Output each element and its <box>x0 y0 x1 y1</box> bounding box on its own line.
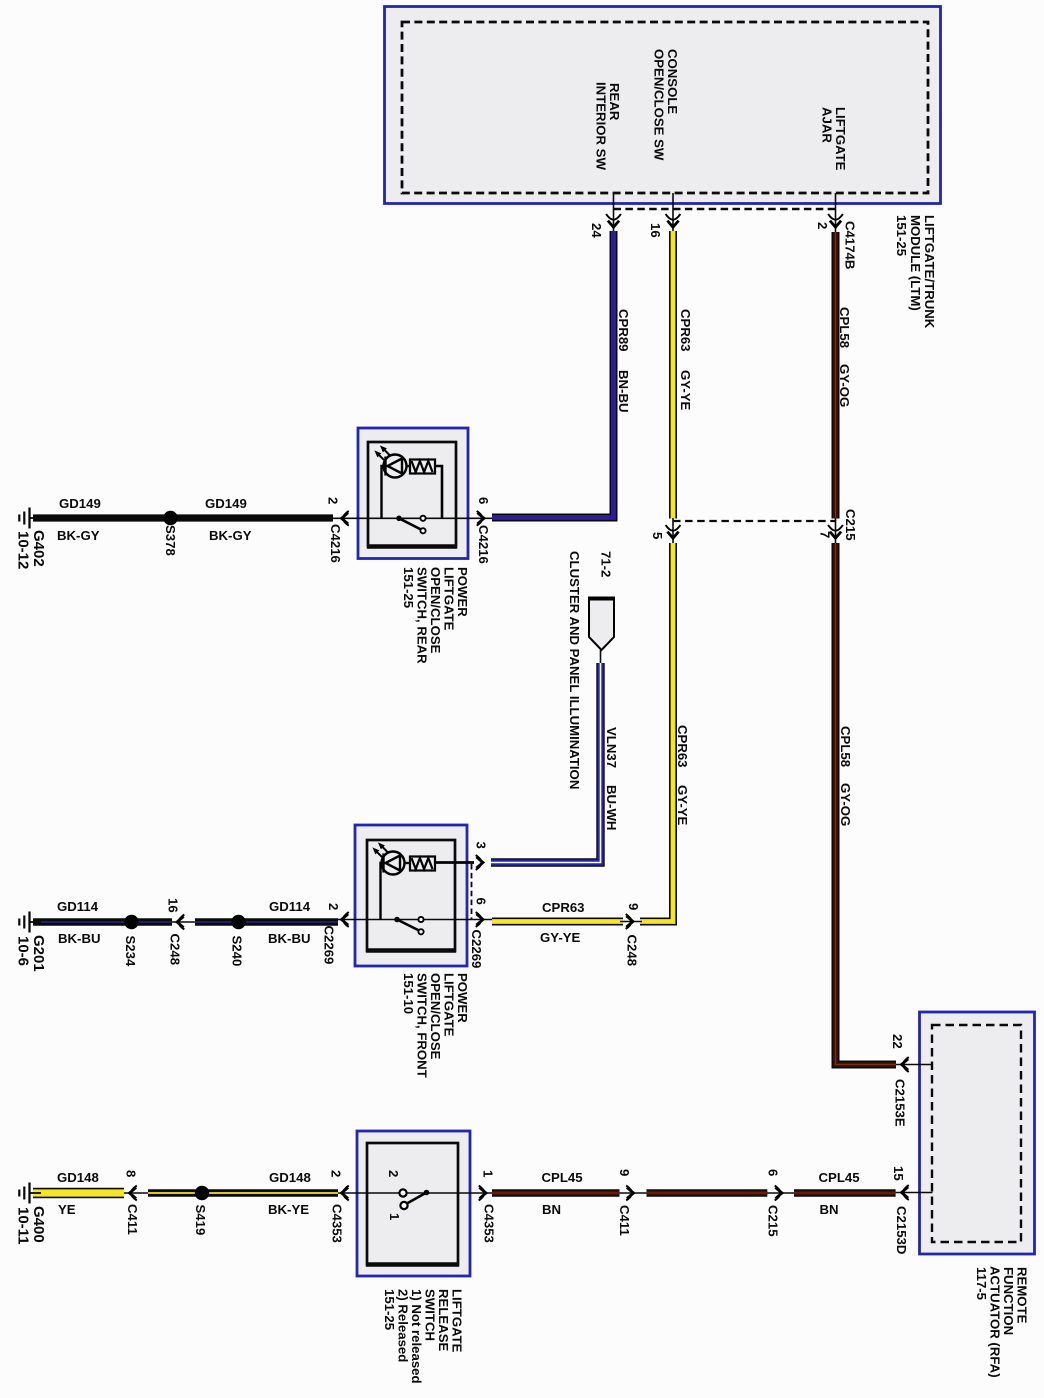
front switch lever <box>397 920 419 931</box>
svg-text:GD148: GD148 <box>269 1170 311 1185</box>
svg-text:GY-OG: GY-OG <box>837 364 852 407</box>
rear switch fixed contact <box>420 516 425 521</box>
svg-text:BK-BU: BK-BU <box>58 931 101 946</box>
svg-text:CPL45: CPL45 <box>542 1170 583 1185</box>
svg-text:15: 15 <box>891 1166 906 1181</box>
svg-text:GD149: GD149 <box>205 496 247 511</box>
connector arrow pin 8 C411 <box>131 1186 137 1201</box>
connector arrow pin 1 C4353 <box>479 1186 485 1201</box>
rear switch inner rect <box>368 442 456 547</box>
front switch fixed contact <box>418 917 423 922</box>
C411 pin9 gap line <box>620 1192 647 1194</box>
wire CPL45 BN segment 1 <box>492 1189 620 1197</box>
wire CPL45 BN segment 3 <box>794 1189 896 1197</box>
svg-text:6: 6 <box>476 497 491 504</box>
svg-text:2: 2 <box>815 222 830 229</box>
front switch lamp left branch <box>381 863 382 920</box>
svg-text:OPEN/CLOSE SW: OPEN/CLOSE SW <box>652 49 667 161</box>
connector arrow pin 15 C2153D <box>903 1185 909 1200</box>
connector arrow pin 2 C2269 <box>343 912 349 927</box>
connector arrow pin 2 C4216 <box>343 511 349 526</box>
wire CPR63 GY-YE switch segment <box>492 918 623 926</box>
rear switch resistor <box>410 460 435 474</box>
svg-text:GD148: GD148 <box>57 1170 99 1185</box>
svg-text:GD114: GD114 <box>269 899 311 914</box>
svg-text:CLUSTER AND PANEL ILLUMINATION: CLUSTER AND PANEL ILLUMINATION <box>567 551 582 789</box>
connector arrow pin 16 <box>666 214 681 220</box>
pin stub 24 <box>613 193 615 231</box>
svg-text:INTERIOR SW: INTERIOR SW <box>594 82 609 170</box>
svg-text:6: 6 <box>474 898 489 905</box>
svg-text:GD149: GD149 <box>59 496 101 511</box>
connector arrow pin 24 <box>606 214 621 220</box>
release switch lever <box>406 1193 427 1205</box>
liftgate/trunk module (LTM) box <box>385 7 941 204</box>
svg-text:C2153E: C2153E <box>893 1079 908 1127</box>
svg-text:MODULE (LTM): MODULE (LTM) <box>908 215 923 311</box>
svg-text:117-5: 117-5 <box>974 1267 989 1300</box>
svg-text:6: 6 <box>766 1169 781 1176</box>
svg-text:C215: C215 <box>766 1205 781 1237</box>
front switch pivot <box>394 917 400 923</box>
svg-text:GY-OG: GY-OG <box>838 783 853 826</box>
svg-text:5: 5 <box>650 532 665 539</box>
front switch resistor lead to pin 3 <box>435 861 474 864</box>
svg-text:C248: C248 <box>168 934 183 966</box>
wire CPR63 GY-YE upper (yellow) <box>669 231 677 519</box>
svg-text:CPL58: CPL58 <box>838 726 853 767</box>
svg-text:10-6: 10-6 <box>15 936 32 966</box>
svg-text:C248: C248 <box>625 935 640 967</box>
svg-text:CPR63: CPR63 <box>678 309 693 352</box>
svg-text:7: 7 <box>818 531 833 538</box>
wire VLN37 BU-WH (blue/white) <box>491 663 601 863</box>
svg-text:CPR63: CPR63 <box>675 725 690 768</box>
svg-text:BK-GY: BK-GY <box>209 528 252 543</box>
svg-text:151-25: 151-25 <box>894 215 909 256</box>
connector arrow pin 2 C4353 <box>343 1186 349 1201</box>
pin stub 16 <box>672 193 674 231</box>
connector C4174B dashed bracket <box>614 208 836 210</box>
svg-text:G201: G201 <box>30 935 47 972</box>
connector arrow pin 6 C2269 <box>476 912 482 927</box>
release switch contact 2 <box>399 1189 406 1196</box>
ground symbol G201 <box>30 921 42 923</box>
splice S419 <box>195 1186 209 1200</box>
splice S234 <box>124 915 138 929</box>
connector arrow pin 3 C2269 <box>476 855 482 870</box>
C215 gap line pin 7 <box>835 518 837 543</box>
connector arrow pin 5 C215 <box>666 525 681 531</box>
ground symbol G402 <box>30 517 42 519</box>
svg-text:GY-YE: GY-YE <box>540 930 581 945</box>
LTM inner dashed border <box>402 22 928 193</box>
svg-text:LIFTGATE/TRUNK: LIFTGATE/TRUNK <box>922 215 937 329</box>
svg-text:C4353: C4353 <box>330 1204 345 1243</box>
rear switch lamp left branch <box>382 466 384 518</box>
ground G201 wire GD114 BK-BU left <box>33 918 172 926</box>
rear switch lever end contact <box>420 528 425 533</box>
svg-text:9: 9 <box>617 1169 632 1176</box>
svg-text:AJAR: AJAR <box>820 107 835 143</box>
svg-text:G402: G402 <box>30 530 47 567</box>
connector arrow pin 6 C215 <box>775 1186 781 1201</box>
C215 pin6 gap line <box>767 1192 794 1194</box>
svg-text:3: 3 <box>474 842 489 849</box>
rear switch lamp LED <box>384 455 407 478</box>
wire CPL45 BN segment 2 <box>647 1189 768 1197</box>
svg-text:S234: S234 <box>123 936 138 967</box>
svg-text:C2153D: C2153D <box>894 1206 909 1254</box>
wire CPL58 GY-OG lower (dark brown) <box>836 543 897 1065</box>
svg-text:1: 1 <box>481 1170 496 1177</box>
svg-text:C2269: C2269 <box>322 926 337 965</box>
front switch lever end contact <box>418 929 423 934</box>
ground G402 wire GD149 BK-GY <box>33 514 333 521</box>
C411 pin8 gap line <box>124 1192 148 1194</box>
pin stub 2 <box>835 193 837 232</box>
rear switch wire line <box>333 517 492 519</box>
connector arrow pin 16 C248 <box>179 915 185 930</box>
connector arrow pin 9 C411 <box>626 1186 632 1201</box>
svg-text:C4216: C4216 <box>328 524 343 563</box>
node 71-2 cluster and panel illumination <box>589 598 614 650</box>
release switch inner rect <box>367 1143 458 1265</box>
svg-text:C215: C215 <box>843 509 858 541</box>
C248 pin9 gap line <box>620 921 642 923</box>
ground G400 wire GD148 YE (yellow) <box>33 1188 124 1198</box>
svg-text:71-2: 71-2 <box>599 551 614 577</box>
RFA pin 15 lead <box>896 1192 933 1194</box>
svg-text:2: 2 <box>326 903 341 910</box>
connector arrow pin 9 C248 <box>626 914 632 929</box>
release switch pivot <box>424 1190 430 1196</box>
svg-text:GY-YE: GY-YE <box>678 370 693 411</box>
remote function actuator (RFA) box <box>920 1012 1035 1254</box>
rear switch pivot <box>396 516 402 522</box>
svg-text:S419: S419 <box>193 1205 208 1236</box>
connector arrow pin 2 C4174B <box>828 214 843 220</box>
svg-text:8: 8 <box>124 1170 139 1177</box>
svg-text:C4174B: C4174B <box>843 221 858 269</box>
svg-text:151-25: 151-25 <box>382 1289 397 1330</box>
C248 pin16 gap line <box>172 921 195 923</box>
front switch lamp-resistor lead <box>405 862 411 864</box>
svg-text:GY-YE: GY-YE <box>675 785 690 826</box>
svg-text:S240: S240 <box>230 936 245 967</box>
power liftgate open/close switch rear box <box>358 428 468 559</box>
svg-text:CPR63: CPR63 <box>542 900 585 915</box>
svg-text:C411: C411 <box>125 1204 140 1235</box>
svg-text:G400: G400 <box>30 1206 47 1243</box>
svg-text:C411: C411 <box>617 1205 632 1236</box>
svg-text:BN: BN <box>820 1202 839 1217</box>
release switch wire line <box>338 1192 492 1194</box>
rear switch resistor right branch <box>435 466 442 518</box>
front switch inner rect <box>367 840 455 951</box>
connector arrow pin 6 C4216 <box>477 511 483 526</box>
svg-text:C2269: C2269 <box>469 930 484 969</box>
wire CPR89 BN-BU (navy) <box>492 231 614 518</box>
front switch resistor <box>410 857 435 871</box>
svg-text:9: 9 <box>626 903 641 910</box>
svg-text:C4216: C4216 <box>476 525 491 564</box>
splice S240 <box>231 915 245 929</box>
rear switch lever <box>399 518 421 529</box>
svg-text:2: 2 <box>386 1170 401 1177</box>
rear switch lamp-resistor lead <box>407 465 411 467</box>
C215 gap line pin 5 <box>672 518 674 543</box>
svg-text:VLN37: VLN37 <box>604 727 619 768</box>
wire GD148 BK-YE <box>148 1189 338 1197</box>
svg-text:2: 2 <box>329 1170 344 1177</box>
svg-text:151-10: 151-10 <box>401 973 416 1014</box>
wire GD114 BK-BU right <box>195 918 338 926</box>
splice S378 <box>163 511 177 525</box>
svg-text:151-25: 151-25 <box>401 567 416 608</box>
front switch wire line <box>338 919 492 921</box>
svg-text:10-12: 10-12 <box>15 531 32 569</box>
svg-text:BK-BU: BK-BU <box>268 931 311 946</box>
connector C215 dashed link <box>673 520 836 522</box>
svg-text:CPL58: CPL58 <box>837 307 852 348</box>
RFA inner dashed border <box>932 1025 1021 1242</box>
wire CPR63 GY-YE lower (yellow) <box>640 543 673 922</box>
release switch contact 1 <box>400 1202 407 1209</box>
liftgate release switch box <box>357 1131 470 1276</box>
svg-text:YE: YE <box>58 1202 76 1217</box>
power liftgate open/close switch front box <box>355 825 467 966</box>
connector arrow pin 7 C215 <box>828 525 843 531</box>
svg-text:BN-BU: BN-BU <box>616 370 631 413</box>
svg-text:CPR89: CPR89 <box>616 309 631 352</box>
svg-text:S378: S378 <box>163 525 178 556</box>
svg-text:GD114: GD114 <box>57 899 99 914</box>
svg-text:10-11: 10-11 <box>15 1207 32 1245</box>
connector arrow pin 22 C2153E <box>903 1057 909 1072</box>
svg-text:CPL45: CPL45 <box>819 1170 860 1185</box>
svg-text:2: 2 <box>326 497 341 504</box>
svg-text:16: 16 <box>166 898 181 913</box>
svg-text:24: 24 <box>589 223 604 238</box>
svg-text:16: 16 <box>648 223 663 238</box>
front switch lamp LED <box>382 852 405 875</box>
svg-text:C4353: C4353 <box>482 1204 497 1243</box>
pentagon tail line <box>600 650 602 664</box>
connector C2269 dashed link pins 3-6 <box>471 864 473 920</box>
svg-text:BN: BN <box>542 1202 561 1217</box>
svg-text:BU-WH: BU-WH <box>604 785 619 830</box>
svg-text:1: 1 <box>387 1213 402 1220</box>
ground symbol G400 <box>30 1192 42 1194</box>
svg-text:22: 22 <box>890 1034 905 1049</box>
svg-text:BK-GY: BK-GY <box>57 528 100 543</box>
RFA pin 22 lead <box>896 1064 933 1066</box>
wire CPL58 GY-OG upper (dark brown) <box>832 232 840 519</box>
svg-text:BK-YE: BK-YE <box>268 1202 309 1217</box>
